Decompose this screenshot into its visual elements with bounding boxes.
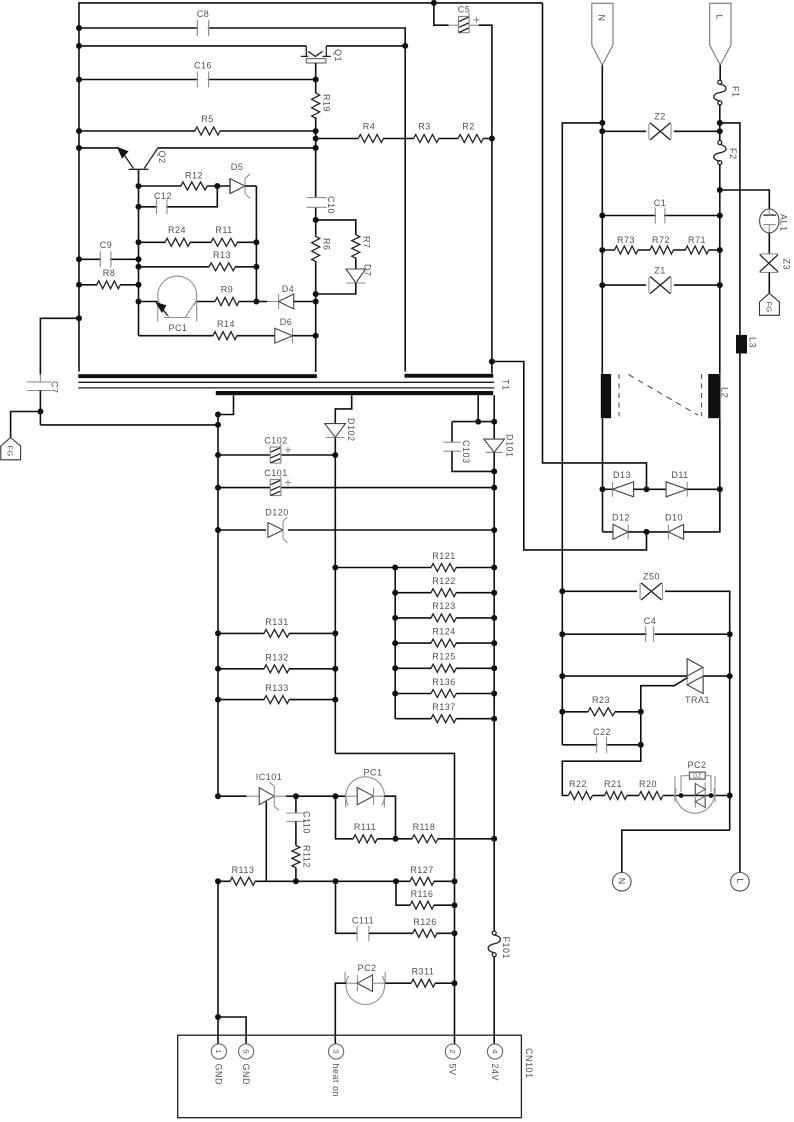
svg-text:D120: D120	[265, 508, 289, 518]
svg-text:R72: R72	[652, 235, 670, 245]
svg-text:Z1: Z1	[654, 266, 666, 276]
junction	[717, 486, 723, 492]
resistor R132	[264, 667, 289, 671]
resistor R118	[412, 837, 437, 841]
wire D5 cathode rail	[255, 186, 257, 302]
wire R111 to node	[377, 838, 395, 840]
svg-text:R137: R137	[432, 702, 456, 712]
junction	[402, 43, 408, 49]
junction	[727, 793, 733, 799]
junction	[599, 128, 605, 134]
svg-text:D6: D6	[280, 317, 293, 327]
resistor R5	[195, 129, 220, 133]
resistor R20	[639, 793, 662, 797]
junction	[717, 128, 723, 134]
svg-text:N: N	[617, 878, 627, 885]
junction	[332, 452, 338, 458]
wire R9 row	[197, 301, 268, 303]
svg-text:R5: R5	[201, 114, 214, 124]
svg-text:R121: R121	[432, 551, 456, 561]
resistor R127	[410, 879, 433, 883]
svg-text:D12: D12	[612, 513, 630, 523]
svg-text:R118: R118	[413, 822, 436, 832]
svg-text:R3: R3	[418, 122, 431, 132]
svg-text:N: N	[597, 15, 607, 22]
svg-text:L2: L2	[720, 387, 730, 398]
capacitor C1	[655, 207, 665, 225]
svg-text:R71: R71	[688, 235, 706, 245]
transistor Q1 (MOSFET)	[301, 46, 331, 80]
junction	[253, 239, 259, 245]
wire R14 row	[139, 335, 275, 337]
wire R111 row	[336, 796, 354, 839]
junction	[452, 902, 458, 908]
wire R7 branch	[316, 220, 356, 235]
svg-text:C1: C1	[654, 198, 667, 208]
junction	[599, 247, 605, 253]
junction	[491, 419, 497, 425]
svg-text:R136: R136	[432, 677, 456, 687]
svg-text:R113: R113	[232, 865, 255, 875]
svg-text:R24: R24	[168, 225, 186, 235]
wire C5 right link	[479, 25, 492, 138]
svg-text:R12: R12	[185, 171, 203, 181]
diode D101	[484, 395, 505, 471]
svg-text:R21: R21	[604, 779, 622, 789]
wire R12 row	[139, 185, 231, 187]
svg-text:R125: R125	[432, 652, 456, 662]
pin 5	[239, 1044, 254, 1059]
wire R116 row	[396, 881, 455, 905]
resistor R23	[588, 710, 614, 714]
wire R8 row	[79, 284, 139, 286]
svg-text:C7: C7	[50, 381, 60, 394]
junction	[215, 422, 221, 428]
wire R12x left rail	[394, 568, 396, 719]
resistor R2	[458, 136, 483, 140]
diode D10	[647, 489, 720, 539]
junction	[136, 299, 142, 305]
junction	[393, 836, 399, 842]
junction	[638, 709, 644, 715]
svg-text:R116: R116	[411, 889, 434, 899]
diode D13	[603, 482, 647, 497]
svg-text:R133: R133	[265, 683, 289, 693]
svg-text:D10: D10	[665, 513, 683, 523]
junction	[599, 213, 605, 219]
wire secondary right lead	[477, 395, 479, 421]
junction	[37, 409, 43, 415]
resistor R7	[352, 235, 360, 258]
junction	[136, 256, 142, 262]
transformer T1 primary winding	[78, 374, 316, 378]
svg-text:5V: 5V	[448, 1064, 458, 1076]
wire Q2 base rail	[138, 186, 140, 336]
resistor R122	[431, 591, 456, 595]
resistor R6	[312, 236, 320, 261]
junction	[717, 282, 723, 288]
svg-text:C5: C5	[458, 5, 471, 15]
junction	[253, 299, 259, 305]
junction	[293, 878, 299, 884]
junction	[727, 673, 733, 679]
resistor R71	[686, 248, 709, 252]
wire Z2 row	[602, 130, 720, 132]
wire R20 to PC2	[663, 795, 730, 797]
resistor R311	[412, 981, 435, 985]
connector N blade	[592, 3, 613, 65]
wire N column	[601, 65, 603, 374]
junction	[559, 588, 565, 594]
resistor R112	[292, 846, 300, 882]
svg-text:heat on: heat on	[331, 1064, 341, 1098]
wire F101 to pin4	[493, 957, 495, 1044]
junction	[475, 419, 481, 425]
svg-text:C22: C22	[593, 727, 611, 737]
resistor R113	[230, 879, 255, 883]
wire C1 row	[602, 215, 720, 217]
junction	[333, 878, 339, 884]
svg-text:R123: R123	[432, 601, 456, 611]
wire L2 left output	[602, 418, 604, 532]
junction	[491, 665, 497, 671]
junction	[491, 527, 497, 533]
wire R137 row	[395, 718, 494, 720]
connector L blade	[710, 3, 731, 65]
junction	[313, 145, 319, 151]
svg-text:R13: R13	[213, 250, 231, 260]
svg-text:F1: F1	[731, 86, 741, 98]
wire C111 to R126	[369, 932, 413, 934]
svg-text:R111: R111	[354, 822, 376, 832]
junction	[644, 486, 650, 492]
transformer T1 core	[78, 382, 494, 388]
wire C111 R126 row	[336, 881, 358, 933]
svg-text:D11: D11	[671, 470, 688, 480]
svg-text:FG: FG	[764, 302, 773, 313]
junction	[214, 183, 220, 189]
wire FG branch left	[11, 412, 41, 438]
wire R133 row	[218, 699, 335, 701]
resistor R111	[354, 837, 377, 841]
pin 2	[445, 1044, 460, 1059]
opto-triac PC2	[675, 772, 715, 813]
svg-text:Q2: Q2	[157, 151, 167, 164]
wire C22 row	[562, 744, 641, 746]
wire C16 row	[79, 79, 316, 81]
svg-text:Z50: Z50	[643, 572, 660, 582]
svg-text:D101: D101	[505, 434, 515, 458]
svg-text:1: 1	[214, 1049, 223, 1053]
svg-text:C103: C103	[461, 440, 471, 464]
junction	[136, 183, 142, 189]
diode D11	[647, 482, 720, 497]
junction	[215, 793, 221, 799]
wire to N terminal	[622, 830, 730, 872]
wire TRA1 right	[703, 675, 730, 677]
wire R13 row	[139, 266, 257, 268]
ground FG right	[760, 293, 780, 315]
svg-text:R112: R112	[301, 845, 311, 868]
junction	[717, 213, 723, 219]
junction	[313, 291, 319, 297]
svg-text:D7: D7	[363, 264, 373, 277]
wire Z50 row	[562, 591, 729, 830]
svg-text:DZ: DZ	[693, 774, 702, 780]
svg-text:C9: C9	[100, 240, 113, 250]
junction	[392, 615, 398, 621]
svg-text:CN101: CN101	[524, 1048, 534, 1079]
resistor R21	[605, 793, 627, 797]
terminal L	[731, 873, 750, 892]
wire L to fuse	[719, 65, 721, 80]
junction	[491, 615, 497, 621]
svg-text:C12: C12	[154, 191, 172, 201]
junction	[332, 565, 338, 571]
junction	[599, 282, 605, 288]
svg-text:PC2: PC2	[357, 963, 376, 973]
svg-text:R7: R7	[362, 236, 372, 249]
varistor Z2	[646, 123, 674, 140]
junction	[491, 716, 497, 722]
svg-text:PC2: PC2	[687, 760, 706, 770]
junction	[136, 239, 142, 245]
resistor R126	[413, 931, 436, 935]
svg-text:C101: C101	[264, 468, 288, 478]
capacitor C101 (polarized)	[270, 476, 291, 495]
wire 5V rail jog to pin2 column	[335, 753, 454, 881]
svg-text:R22: R22	[569, 779, 587, 789]
junction	[215, 412, 221, 418]
svg-text:D4: D4	[282, 284, 295, 294]
svg-text:Z3: Z3	[782, 259, 792, 271]
varistor Z1	[646, 277, 674, 294]
resistor R136	[431, 691, 456, 695]
svg-text:R311: R311	[412, 967, 435, 977]
wire Z3 to FG	[768, 272, 770, 293]
junction	[313, 77, 319, 83]
diode D7	[316, 258, 366, 294]
capacitor C103	[443, 422, 494, 472]
junction	[313, 128, 319, 134]
resistor R121	[431, 565, 456, 569]
resistor R9	[215, 299, 238, 303]
pin 3	[329, 1044, 344, 1059]
wire C5 rail to bias winding	[491, 139, 493, 374]
transformer T1 secondary winding	[216, 391, 493, 395]
junction	[313, 217, 319, 223]
wire C102 row	[218, 454, 335, 456]
junction	[215, 697, 221, 703]
junction	[215, 527, 221, 533]
wire R73 R72 R71 row	[602, 249, 720, 251]
capacitor C16	[198, 78, 208, 81]
resistor R116	[410, 903, 433, 907]
junction	[452, 980, 458, 986]
wire D120 row	[218, 529, 494, 531]
svg-text:PC1: PC1	[363, 768, 382, 778]
svg-text:R73: R73	[617, 235, 635, 245]
svg-text:R19: R19	[322, 94, 332, 112]
svg-text:C8: C8	[197, 9, 210, 19]
junction	[599, 120, 605, 126]
wire R311 to rail	[435, 982, 454, 984]
wire C9 row	[79, 258, 139, 260]
wire pin1 gnd rail	[217, 881, 219, 1044]
junction	[333, 793, 339, 799]
svg-text:R2: R2	[462, 122, 475, 132]
wire R123 row	[395, 617, 494, 619]
svg-text:L: L	[715, 15, 725, 21]
junction	[727, 631, 733, 637]
connector CN101	[178, 1035, 522, 1118]
wire Q1 drain to box edge	[326, 45, 405, 47]
resistor R8	[97, 283, 120, 287]
wire pin5 jog	[218, 1017, 246, 1044]
capacitor C7	[27, 318, 79, 425]
svg-text:F2: F2	[728, 148, 738, 160]
resistor R22	[569, 793, 592, 797]
inductor L3	[736, 335, 747, 354]
junction	[600, 486, 606, 492]
resistor R123	[431, 616, 456, 620]
junction	[559, 709, 565, 715]
junction	[76, 256, 82, 262]
wire Z1 row	[602, 284, 720, 286]
junction	[491, 836, 497, 842]
junction	[717, 120, 723, 126]
wire R118 row	[396, 838, 495, 840]
wire IC101 row	[218, 795, 247, 797]
capacitor C102 (polarized)	[270, 444, 291, 463]
capacitor C5 (polarized)	[449, 13, 480, 33]
junction	[644, 529, 650, 535]
wire AL1 branch	[720, 190, 770, 209]
junction	[559, 673, 565, 679]
svg-text:R14: R14	[217, 319, 235, 329]
junction	[215, 878, 221, 884]
fuse F1	[714, 80, 726, 105]
wire C4 row	[562, 633, 729, 635]
junction	[717, 187, 723, 193]
resistor R125	[431, 666, 456, 670]
junction	[76, 282, 82, 288]
junction	[253, 264, 259, 270]
junction	[489, 136, 495, 142]
diode D5 (zener)	[230, 174, 256, 199]
junction	[76, 77, 82, 83]
junction	[489, 359, 495, 365]
svg-text:TRA1: TRA1	[685, 695, 710, 705]
wire secondary left lead	[218, 395, 234, 796]
junction	[332, 697, 338, 703]
varistor Z3	[760, 254, 779, 273]
wire D102 anode lead	[335, 395, 351, 423]
wire R132 row	[218, 668, 335, 670]
junction	[638, 742, 644, 748]
svg-text:R6: R6	[322, 238, 332, 251]
junction	[431, 0, 437, 6]
capacitor C12	[157, 205, 166, 208]
svg-text:T1: T1	[501, 379, 511, 391]
wire L2 right output	[719, 418, 721, 532]
capacitor C4	[646, 625, 655, 643]
wire R22-R21	[593, 795, 605, 797]
svg-text:AL1: AL1	[779, 214, 789, 232]
junction	[452, 930, 458, 936]
pin 4	[487, 1044, 502, 1059]
wire PC1 to R111 node	[384, 796, 395, 839]
resistor R13	[209, 265, 235, 269]
opto-LED PC2	[345, 972, 385, 1005]
junction	[313, 136, 319, 142]
varistor Z50	[637, 583, 665, 600]
ground FG left	[1, 438, 21, 460]
junction	[491, 691, 497, 697]
junction	[392, 640, 398, 646]
resistor R12	[181, 184, 207, 188]
junction	[76, 145, 82, 151]
wire R122 row	[395, 592, 494, 594]
svg-text:R132: R132	[265, 653, 289, 663]
svg-text:GND: GND	[214, 1064, 224, 1086]
wire IC101 row to PC1	[296, 795, 346, 797]
resistor R131	[264, 631, 289, 635]
fuse F101	[488, 931, 500, 957]
svg-text:Q1: Q1	[333, 49, 343, 62]
wire top rail y=3	[79, 3, 543, 372]
diode D6	[275, 328, 316, 343]
svg-text:L: L	[735, 878, 745, 884]
svg-text:R127: R127	[410, 865, 434, 875]
wire Q2 emitter row	[79, 147, 119, 149]
junction	[215, 452, 221, 458]
capacitor C8	[197, 19, 208, 37]
junction	[559, 631, 565, 637]
svg-text:F101: F101	[501, 937, 511, 960]
wire bias tap branch	[492, 362, 647, 550]
fuse F2	[714, 141, 726, 165]
svg-text:FG: FG	[6, 446, 15, 457]
wire R21-R20	[627, 795, 639, 797]
junction	[679, 793, 684, 798]
svg-text:3: 3	[331, 1049, 340, 1053]
svg-text:R4: R4	[363, 122, 376, 132]
junction	[215, 485, 221, 491]
svg-text:PC1: PC1	[168, 323, 187, 333]
wire N top left branch	[562, 123, 602, 745]
opto-transistor PC1	[139, 276, 197, 322]
junction	[215, 666, 221, 672]
terminal N	[613, 873, 632, 892]
junction	[491, 565, 497, 571]
resistor R11	[211, 240, 237, 244]
wire C5 left link	[434, 3, 449, 25]
junction	[332, 630, 338, 636]
resistor R133	[264, 698, 289, 702]
wire R124 row	[395, 642, 494, 644]
resistor R14	[213, 334, 236, 338]
svg-text:2: 2	[448, 1049, 457, 1053]
junction	[293, 793, 299, 799]
junction	[136, 282, 142, 288]
resistor R3	[414, 136, 439, 140]
wire PC2 to R311	[385, 982, 411, 984]
wire R126 to rail	[437, 932, 455, 934]
junction	[717, 247, 723, 253]
svg-text:24V: 24V	[490, 1064, 500, 1082]
wire PC2 left lead to pin3	[335, 983, 346, 1044]
